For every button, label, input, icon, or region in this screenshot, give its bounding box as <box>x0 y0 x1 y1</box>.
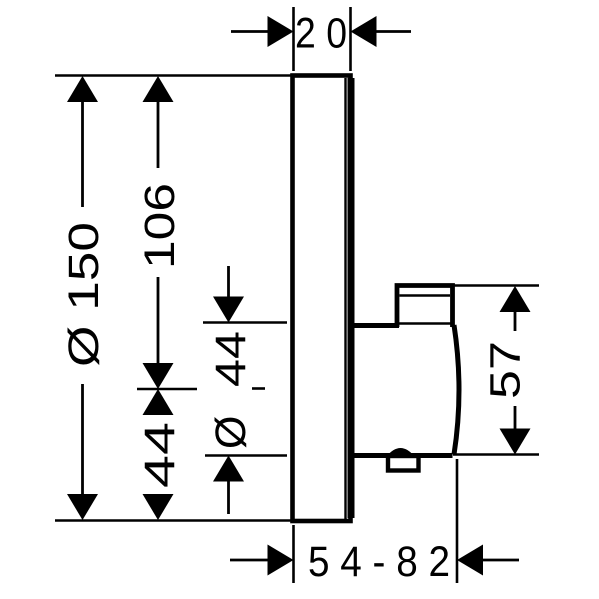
dimension 106: dimension line with arrows <box>143 76 174 389</box>
dimension 54-82: left extension line <box>292 525 295 583</box>
junction tick line at 106/44 boundary <box>137 388 197 391</box>
svg-text:57: 57 <box>482 341 530 399</box>
dimension 57: top extension line <box>453 284 539 287</box>
svg-text:5 4 - 8 2: 5 4 - 8 2 <box>308 538 450 586</box>
dimension D150: dimension line with arrows <box>67 76 98 520</box>
handle cap (select button) <box>397 286 453 328</box>
dimension D150: bottom extension line <box>55 519 291 522</box>
dimension 44 (lower left): arrows <box>143 389 174 520</box>
svg-text:Ø 150: Ø 150 <box>60 222 108 367</box>
dimension 20: extension line right <box>349 7 352 71</box>
dimension D44: arrow up + leader below <box>213 456 244 515</box>
svg-text:Ø: Ø <box>207 416 255 449</box>
svg-text:44: 44 <box>207 331 255 387</box>
dimension 57: bottom extension line <box>453 453 539 456</box>
dimension 20: left tail + arrow <box>231 16 294 47</box>
dimension D150: top extension line <box>55 74 291 77</box>
dimension 54-82: left tail + arrow <box>230 545 294 576</box>
dimension 57: dimension line with arrows <box>500 286 531 455</box>
svg-text:44: 44 <box>136 422 184 488</box>
dimension 20: right arrow + tail <box>351 16 412 47</box>
dimension 54-82: right extension line <box>456 459 459 583</box>
plate (escutcheon side view) <box>293 76 352 522</box>
handle body (sleeve) <box>348 325 459 457</box>
dimension D44: bottom tick <box>205 454 287 457</box>
handle bottom notch <box>388 456 419 471</box>
dimension 54-82: right arrow + tail <box>457 545 519 576</box>
centerline dash <box>252 387 265 390</box>
dimension 20: extension line left <box>292 7 295 71</box>
dimension D44: top tick <box>203 321 287 324</box>
dimension D44: leader above + arrow down <box>213 266 244 323</box>
svg-text:2 0: 2 0 <box>295 10 347 58</box>
svg-text:106: 106 <box>136 183 184 269</box>
